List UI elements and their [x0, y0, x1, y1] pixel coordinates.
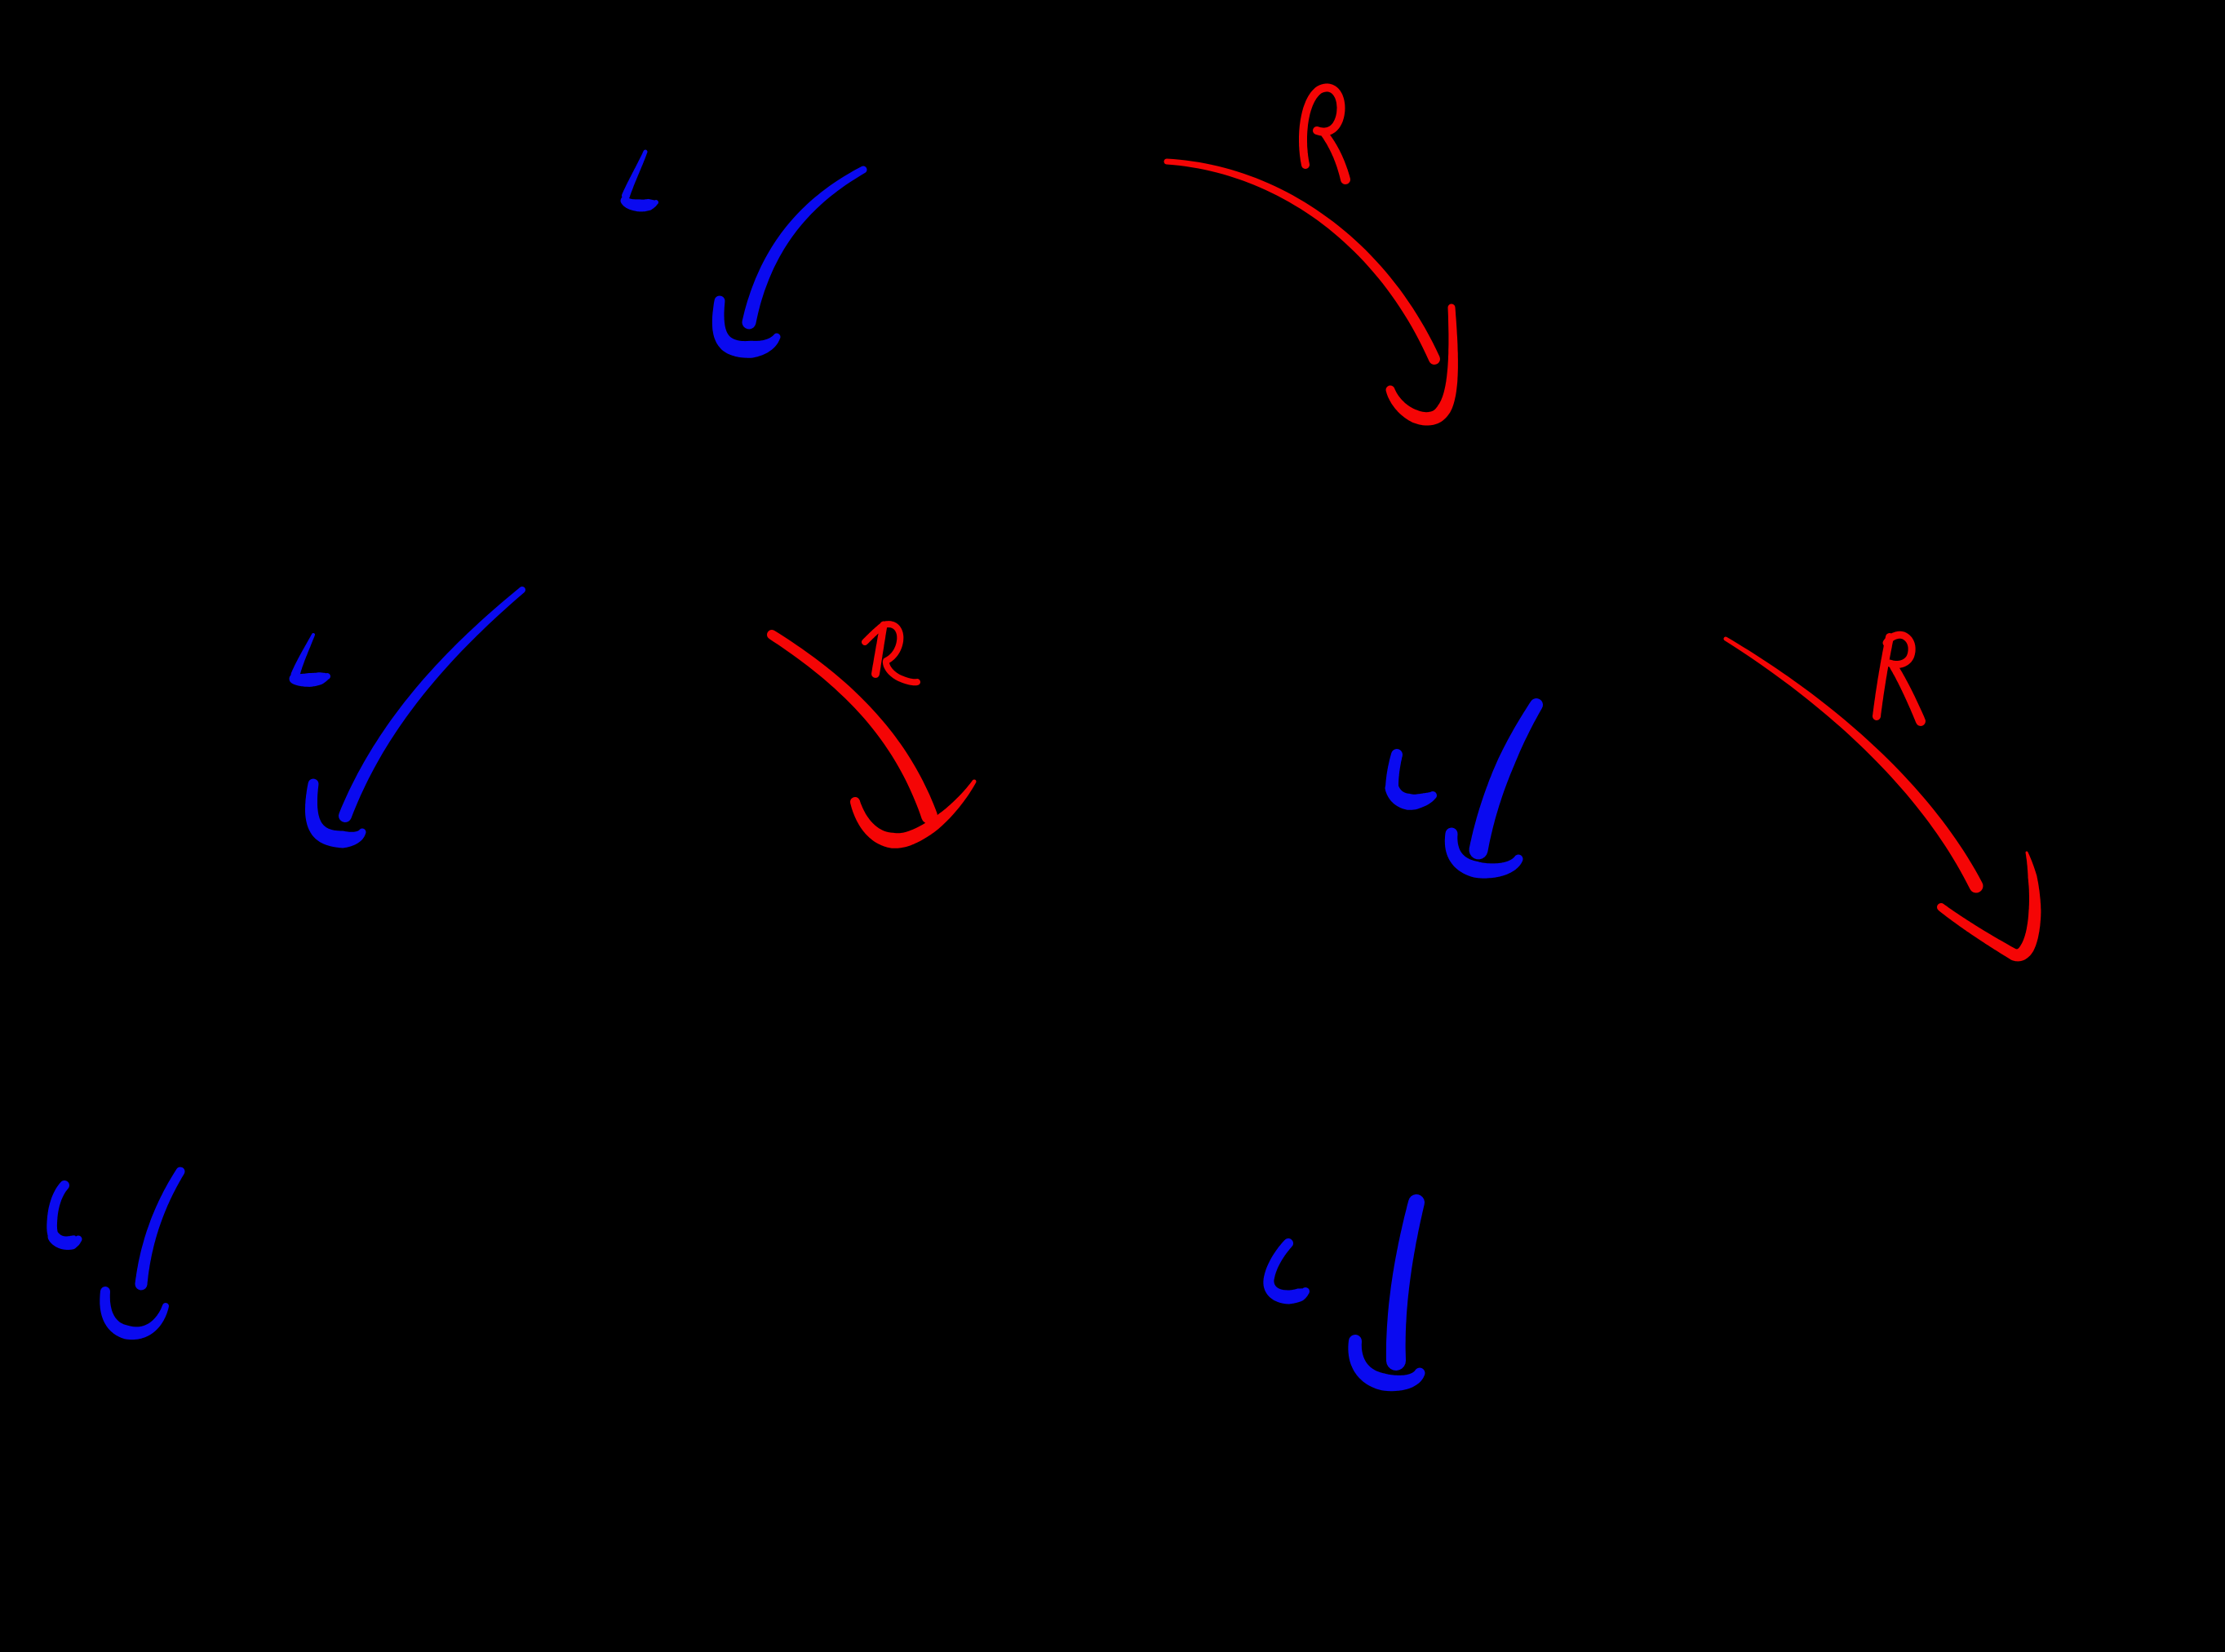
label L1 (top) stem — [622, 150, 648, 201]
arrow R1 head — [1386, 304, 1458, 426]
label R2 (center) bowl+leg — [880, 621, 920, 685]
label L4 (bottom-left) foot — [48, 1231, 82, 1251]
arrow L5 shaft — [1386, 1194, 1425, 1371]
arrow L4 shaft — [135, 1167, 185, 1291]
arrow L3 head — [1445, 828, 1523, 879]
label L2 (mid-left) stem — [291, 633, 316, 680]
arrow L3 shaft — [1469, 698, 1543, 859]
label L2 (mid-left) foot — [290, 672, 331, 687]
arrow L5 head — [1348, 1335, 1425, 1391]
label L5 (bottom-middle) comma — [1263, 1238, 1310, 1304]
arrow L2 shaft — [339, 587, 525, 822]
label L4 (bottom-left) stem — [47, 1180, 69, 1242]
label R3 (right) stem — [1873, 633, 1894, 720]
label R3 (right) bowl — [1883, 631, 1916, 668]
arrow R2 shaft — [767, 630, 937, 824]
arrow L1 head — [712, 296, 781, 358]
label L3 (mid-right) stem — [1385, 749, 1403, 795]
label R2 (center) stem — [871, 622, 887, 678]
label L3 (mid-right) foot — [1385, 782, 1438, 810]
arrow R2 head — [850, 780, 977, 848]
label R1 (top) loop — [1299, 83, 1345, 169]
label L1 (top) foot — [621, 197, 659, 212]
arrow L4 head — [100, 1287, 169, 1340]
arrow L2 head — [305, 779, 366, 848]
arrow L1 shaft — [742, 166, 867, 330]
arrow R3 shaft — [1724, 637, 1983, 893]
label R2 (center) lead-in — [862, 622, 887, 645]
arrow R1 shaft — [1164, 159, 1440, 365]
label R3 (right) leg — [1890, 662, 1926, 726]
arrow R3 head — [1937, 852, 2041, 962]
label R1 (top) leg — [1319, 128, 1351, 185]
